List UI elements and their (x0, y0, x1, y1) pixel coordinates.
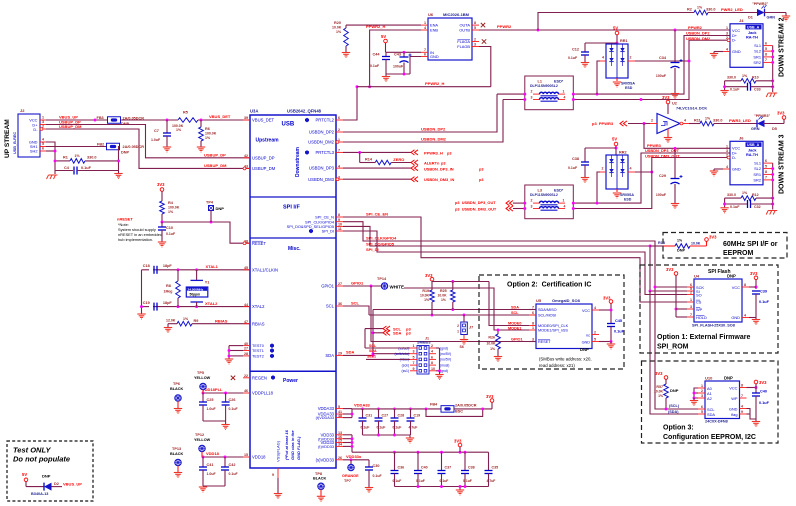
ground (167, 324, 169, 327)
svg-text:1: 1 (413, 344, 415, 348)
svg-text:330.0: 330.0 (706, 8, 716, 12)
svg-text:USBDN_DP2: USBDN_DP2 (421, 127, 446, 132)
IC TEST shield glyphs (270, 343, 274, 348)
dashed box SPI Flash (640, 265, 778, 353)
svg-text:PPWR3_H: PPWR3_H (424, 150, 443, 155)
svg-text:DOWN STREAM 3: DOWN STREAM 3 (779, 134, 786, 194)
svg-text:2: 2 (531, 90, 533, 94)
svg-text:3: 3 (531, 204, 533, 208)
svg-text:2: 2 (338, 128, 340, 132)
svg-text:SDA: SDA (325, 353, 334, 358)
svg-text:VCC: VCC (732, 285, 740, 290)
svg-text:VDD18: VDD18 (206, 451, 220, 456)
svg-text:R9: R9 (194, 319, 199, 323)
ground (225, 359, 233, 364)
ground (197, 147, 205, 152)
svg-text:TP13: TP13 (172, 447, 181, 451)
wire nRESET (161, 214, 163, 222)
svg-text:R2: R2 (687, 8, 692, 12)
svg-text:RR2: RR2 (619, 151, 627, 155)
svg-text:1: 1 (563, 90, 565, 94)
wire PRTCTL3 PPWR3_H (343, 151, 411, 153)
SCL chevron vertical to SMBus (364, 329, 366, 348)
svg-text:1%: 1% (183, 317, 189, 321)
svg-text:2A/0.05DCR: 2A/0.05DCR (455, 404, 477, 408)
capacitor C4 (55, 170, 73, 172)
svg-text:C29: C29 (659, 174, 666, 178)
svg-text:(SCL): (SCL) (669, 404, 680, 408)
svg-text:18pF: 18pF (163, 301, 173, 305)
svg-text:3: 3 (726, 149, 728, 153)
wire PPWR3 to J6 (644, 124, 730, 149)
svg-text:22: 22 (244, 374, 248, 378)
svg-text:1%: 1% (705, 117, 711, 121)
svg-text:D2: D2 (54, 482, 59, 486)
svg-text:(gnd): (gnd) (440, 346, 448, 350)
dashed box Option 3 (642, 361, 779, 443)
svg-text:Downstream: Downstream (295, 146, 301, 177)
svg-text:50ppm: 50ppm (190, 293, 201, 297)
pin bubbles right (336, 141, 339, 144)
capacitor C19b (410, 409, 412, 418)
SMBus right ground vertical (436, 347, 440, 349)
svg-text:USB_A: USB_A (747, 143, 760, 147)
svg-text:"PPWR3": "PPWR3" (754, 114, 770, 118)
svg-text:100.0K: 100.0K (205, 132, 217, 136)
svg-text:SPI_CE_EN: SPI_CE_EN (366, 211, 388, 216)
svg-text:REGEN: REGEN (252, 375, 267, 380)
ground J7 (463, 335, 465, 340)
verticals to Option3 (650, 291, 698, 414)
wire MODE1 (404, 288, 529, 330)
svg-text:0.1uF: 0.1uF (370, 64, 380, 68)
svg-text:FB4: FB4 (430, 403, 438, 407)
svg-text:R19: R19 (422, 289, 429, 293)
wire XTAL2 (153, 306, 250, 308)
U10 pin stubs left (698, 387, 705, 389)
capacitor C45 (607, 324, 615, 327)
svg-text:RA-TH: RA-TH (746, 153, 758, 157)
svg-text:4: 4 (338, 164, 340, 168)
power 3V3 C39 (754, 276, 758, 280)
svg-text:4.7uF: 4.7uF (409, 426, 418, 430)
svg-text:R1: R1 (63, 156, 68, 160)
svg-text:GRN: GRN (767, 16, 776, 20)
power 3V3 U2 (666, 100, 670, 104)
svg-text:3: 3 (531, 95, 533, 99)
wire VCC U10 (747, 387, 757, 389)
SDA vertical (372, 310, 374, 356)
wire USBDN_DP3 / chevron (343, 167, 411, 169)
svg-text:R11: R11 (694, 119, 701, 123)
svg-text:2: 2 (701, 389, 703, 393)
svg-text:7: 7 (690, 313, 692, 317)
capacitor C40 (752, 393, 760, 396)
resistor R19 (430, 290, 435, 302)
ground (158, 242, 166, 247)
ground R10 C33 left (724, 81, 726, 90)
wire VBUS_DET (121, 119, 179, 121)
svg-text:C37: C37 (445, 466, 452, 470)
ground (163, 147, 171, 152)
svg-text:4: 4 (424, 26, 426, 30)
svg-text:7: 7 (413, 361, 415, 365)
svg-text:1: 1 (726, 26, 728, 30)
svg-text:4: 4 (431, 350, 433, 354)
capacitor C38b (464, 452, 466, 470)
svg-text:SEL1: SEL1 (367, 355, 376, 359)
wire SMBus pin5 (366, 358, 410, 360)
svg-text:5V: 5V (381, 34, 386, 39)
ground C29 (671, 204, 679, 209)
capacitor C43 (403, 52, 405, 56)
wire SDA (343, 354, 373, 356)
svg-text:3V3: 3V3 (655, 371, 663, 376)
svg-text:DOWN STREAM 2: DOWN STREAM 2 (779, 17, 786, 77)
svg-text:B340A-13: B340A-13 (31, 492, 48, 496)
wire ground rail crystal (141, 270, 143, 314)
svg-text:GND: GND (582, 340, 591, 344)
svg-text:0.1uF: 0.1uF (463, 479, 472, 483)
wire GND U5 (599, 341, 611, 343)
svg-text:read address: x21): read address: x21) (539, 363, 575, 368)
wire IN rail (386, 51, 422, 53)
svg-text:D-: D- (33, 127, 38, 132)
svg-text:VCC: VCC (582, 309, 590, 313)
svg-text:0.1uF: 0.1uF (759, 300, 770, 304)
wire J7 to SCL (463, 315, 465, 322)
svg-text:SL2: SL2 (754, 49, 761, 54)
svg-text:"PPWR2": "PPWR2" (752, 2, 768, 6)
svg-text:2: 2 (457, 324, 459, 328)
svg-text:SDA: SDA (346, 349, 355, 354)
svg-text:10.0K: 10.0K (438, 294, 448, 298)
U4 GND wire (749, 317, 756, 319)
svg-text:5V: 5V (22, 472, 27, 477)
wire L1 in (497, 93, 525, 95)
svg-text:1%: 1% (336, 30, 342, 34)
svg-text:GND vias in the: GND vias in the (290, 430, 295, 460)
ground TP8 (317, 496, 325, 501)
svg-text:C40: C40 (421, 466, 428, 470)
svg-text:SR05SA: SR05SA (621, 82, 635, 86)
test point TP14 WHITE (381, 283, 387, 289)
svg-text:PPWR2: PPWR2 (688, 25, 703, 30)
svg-text:6: 6 (701, 405, 703, 409)
svg-text:4: 4 (564, 204, 566, 208)
svg-text:45: 45 (244, 266, 248, 270)
svg-text:DLP11SN900SL2: DLP11SN900SL2 (530, 193, 558, 197)
wire GND pin to rail (410, 57, 421, 75)
svg-text:S6: S6 (460, 345, 464, 349)
svg-text:J4: J4 (739, 18, 744, 23)
REGEN no-connect X (231, 376, 235, 380)
svg-text:6: 6 (765, 159, 767, 163)
svg-text:U10: U10 (705, 376, 713, 381)
svg-text:R10: R10 (752, 76, 759, 80)
svg-text:0.1uF: 0.1uF (614, 330, 625, 334)
wire SDA run to U5 (373, 309, 536, 311)
svg-text:1%: 1% (742, 74, 748, 78)
power 3V3 R57 (664, 376, 668, 380)
wire GPIO1 TP14 (343, 285, 381, 287)
svg-text:R13: R13 (658, 241, 665, 245)
svg-text:p3 USBDN_DM3_OUT: p3 USBDN_DM3_OUT (455, 207, 497, 212)
svg-text:RR1: RR1 (620, 39, 628, 43)
J2 D- bubble (40, 128, 43, 131)
svg-text:4: 4 (630, 167, 632, 171)
capacitor C40b (417, 452, 419, 470)
svg-text:8: 8 (765, 53, 767, 57)
svg-text:VBUS_DET: VBUS_DET (252, 118, 275, 123)
svg-text:(no/5V): (no/5V) (440, 358, 451, 362)
svg-text:R8: R8 (166, 284, 171, 288)
svg-text:USB: USB (282, 122, 295, 128)
wire USBUP_DP (46, 125, 250, 158)
svg-text:FB2: FB2 (97, 142, 104, 146)
wire DP3_OUT to J6 (573, 153, 730, 203)
wire VCC U5 (599, 309, 611, 311)
pin stubs J2 (40, 119, 46, 121)
capacitor C18 (154, 266, 157, 274)
diode D2 B340A-13 (44, 483, 52, 491)
svg-text:USBDN_DP2: USBDN_DP2 (686, 31, 710, 36)
svg-text:SR1: SR1 (753, 172, 761, 177)
ground C26 (221, 425, 229, 430)
earth ground J6 (766, 211, 777, 215)
inverter U2 74LVC1G14 (657, 114, 680, 134)
dashed box Test ONLY (7, 441, 93, 501)
svg-text:TP14: TP14 (377, 277, 387, 281)
svg-text:C25: C25 (207, 398, 214, 402)
svg-text:BSC: BSC (455, 410, 463, 414)
ground R20 (342, 53, 350, 58)
svg-text:SL1: SL1 (754, 161, 761, 166)
svg-text:C41: C41 (207, 463, 214, 467)
svg-text:GPIO1: GPIO1 (321, 284, 334, 289)
svg-text:VDD33o: VDD33o (346, 454, 362, 459)
svg-text:4: 4 (744, 314, 746, 318)
svg-text:BLACK: BLACK (170, 452, 184, 456)
svg-text:18pF: 18pF (163, 264, 173, 268)
svg-text:DNP: DNP (724, 376, 733, 381)
wire L1 out DP2 (573, 36, 730, 95)
svg-text:USB_B-REC: USB_B-REC (13, 132, 17, 154)
svg-text:R57: R57 (656, 385, 663, 389)
svg-text:WHITE: WHITE (390, 284, 405, 289)
svg-text:47: 47 (244, 320, 248, 324)
svg-text:3V3: 3V3 (750, 271, 758, 276)
svg-text:100uF: 100uF (656, 193, 667, 197)
wire GND U10 (747, 409, 757, 420)
svg-text:DNP: DNP (121, 151, 129, 155)
wire SMBus pin1 to SCL chevron (365, 347, 410, 349)
svg-text:RESET: RESET (252, 241, 266, 246)
wire RESET GPIO1 (529, 341, 536, 343)
capacitor C19 (154, 303, 157, 311)
svg-text:EEPROM: EEPROM (723, 250, 754, 257)
capacitor C25 (202, 393, 204, 402)
off-page chevron SCL p3 (365, 328, 383, 330)
capacitor C35 (488, 452, 490, 470)
capacitor C26 (225, 393, 227, 402)
svg-text:3: 3 (413, 350, 415, 354)
svg-text:DNP: DNP (580, 347, 589, 352)
power 5V RR2 (614, 142, 618, 146)
svg-text:TP5: TP5 (197, 371, 204, 375)
svg-text:(ss1): (ss1) (401, 369, 409, 373)
svg-text:XTAL2: XTAL2 (205, 301, 218, 306)
jumper J7 (461, 322, 468, 335)
IC U3A USB2642_QFN48 (250, 115, 336, 468)
resistor R6 (200, 120, 202, 127)
svg-text:10.0K: 10.0K (654, 390, 664, 394)
svg-text:15: 15 (244, 453, 248, 457)
svg-text:RBIAS: RBIAS (215, 319, 228, 324)
svg-text:4: 4 (602, 56, 604, 60)
svg-text:0.1uF: 0.1uF (377, 426, 386, 430)
svg-text:1%: 1% (441, 298, 446, 302)
svg-text:USBDN_DP2: USBDN_DP2 (309, 130, 335, 135)
svg-text:2: 2 (602, 167, 604, 171)
common-mode choke L3 DLP11SN900SL2 (525, 185, 574, 219)
capacitor C36 (394, 452, 396, 470)
svg-text:SPI_DO/GPIO5: SPI_DO/GPIO5 (366, 241, 395, 246)
svg-text:J2: J2 (20, 108, 25, 113)
wire SCL (343, 306, 369, 315)
ground U5 (607, 344, 615, 349)
wire VDDPLL18 (203, 392, 243, 394)
svg-text:8: 8 (474, 21, 476, 25)
svg-text:5: 5 (338, 405, 340, 409)
shield network wires (46, 142, 55, 171)
svg-text:8: 8 (532, 322, 534, 326)
svg-text:J7: J7 (469, 326, 473, 330)
capacitor C32 (725, 203, 747, 205)
svg-text:(t)VDD33: (t)VDD33 (318, 445, 334, 449)
svg-text:ESD: ESD (625, 86, 633, 90)
IC U10 24C0X EEPROM (705, 381, 740, 419)
svg-text:C10: C10 (166, 226, 173, 230)
svg-text:0.1uF: 0.1uF (440, 479, 449, 483)
svg-text:(SDA): (SDA) (668, 410, 679, 414)
svg-text:1: 1 (532, 326, 534, 330)
svg-text:A2: A2 (707, 396, 712, 401)
svg-text:C40: C40 (760, 390, 767, 394)
svg-text:1: 1 (701, 384, 703, 388)
capacitor C33 (725, 86, 747, 88)
ground C30 (365, 488, 373, 493)
svg-text:7: 7 (765, 58, 767, 62)
U4 pin stubs left (687, 286, 694, 288)
svg-text:1%: 1% (742, 191, 748, 195)
svg-text:1%: 1% (168, 210, 174, 214)
svg-text:USBDN_DM2: USBDN_DM2 (308, 140, 334, 145)
svg-text:D-: D- (732, 155, 737, 160)
svg-text:GPIO1: GPIO1 (511, 338, 523, 342)
crystal Y1 (196, 270, 198, 280)
svg-text:USBUP_DP: USBUP_DP (252, 155, 275, 160)
svg-text:0.1uF: 0.1uF (166, 232, 176, 236)
off-page chevron PPWR3_H (411, 150, 418, 155)
svg-text:XTAL1: XTAL1 (206, 264, 219, 269)
svg-text:RBIAS: RBIAS (252, 321, 265, 326)
capacitor C10 (161, 222, 163, 227)
ferrite bead FB2 (107, 143, 120, 150)
svg-text:0.1uF: 0.1uF (393, 479, 402, 483)
svg-text:1: 1 (726, 144, 728, 148)
svg-text:9: 9 (338, 218, 340, 222)
svg-text:5: 5 (474, 26, 476, 30)
svg-text:2: 2 (651, 119, 653, 123)
svg-text:8: 8 (744, 283, 746, 287)
svg-text:7: 7 (765, 176, 767, 180)
svg-text:U2: U2 (672, 102, 677, 106)
svg-text:GRN: GRN (751, 127, 760, 131)
ground TP6 (174, 409, 182, 414)
svg-text:PRTCTL2: PRTCTL2 (315, 118, 334, 123)
svg-text:C43: C43 (394, 53, 401, 57)
svg-text:0.1uF: 0.1uF (229, 407, 239, 411)
off-page chevron ALERTn (411, 160, 418, 165)
svg-text:(*Put at least 16: (*Put at least 16 (284, 429, 289, 460)
svg-text:4: 4 (564, 95, 566, 99)
svg-text:SPI_DI: SPI_DI (322, 229, 334, 234)
svg-text:TP8: TP8 (315, 472, 322, 476)
svg-text:PRTCTL3: PRTCTL3 (315, 150, 334, 155)
svg-text:TP12: TP12 (195, 433, 204, 437)
svg-text:PPWR2_H: PPWR2_H (425, 81, 444, 86)
svg-text:28: 28 (244, 352, 248, 356)
svg-text:0.1uF: 0.1uF (393, 426, 402, 430)
svg-text:C38: C38 (572, 157, 579, 161)
svg-text:SPI_FLASH-25X30_SO8: SPI_FLASH-25X30_SO8 (692, 324, 735, 328)
IC U6 MIC2026-1BM (428, 18, 472, 60)
svg-text:GPIO1: GPIO1 (351, 281, 364, 286)
svg-text:C34: C34 (659, 56, 667, 60)
wire SPI_CE_EN (343, 217, 687, 302)
svg-text:6: 6 (431, 355, 433, 359)
ground C12 (581, 63, 589, 68)
svg-text:48: 48 (338, 414, 342, 418)
dashed box Option 2 (479, 275, 624, 369)
svg-text:3: 3 (726, 32, 728, 36)
RR1 pin stubs (600, 60, 606, 62)
svg-text:5V: 5V (612, 137, 617, 142)
svg-text:5: 5 (701, 410, 703, 414)
IC U4 SPI_FLASH (694, 279, 742, 322)
resistor R14 ZERO (359, 152, 361, 162)
svg-text:6: 6 (338, 116, 340, 120)
svg-text:SO: SO (696, 293, 702, 298)
svg-text:C19: C19 (143, 301, 150, 305)
svg-text:C39: C39 (760, 290, 767, 294)
svg-text:C12: C12 (572, 48, 579, 52)
svg-text:TEST0: TEST0 (252, 344, 264, 348)
svg-text:USBDN_DM3_IN: USBDN_DM3_IN (424, 177, 454, 182)
svg-text:TP4: TP4 (206, 201, 214, 205)
svg-text:44: 44 (244, 303, 248, 307)
svg-text:OUTB: OUTB (459, 28, 470, 33)
svg-text:10: 10 (431, 367, 435, 371)
svg-text:p3 PPWR3: p3 PPWR3 (592, 121, 614, 126)
capacitor C30 (368, 460, 370, 467)
svg-text:ESD: ESD (624, 198, 632, 202)
svg-text:SL1: SL1 (754, 43, 761, 48)
svg-text:330.0: 330.0 (87, 156, 97, 160)
U10 pin stubs right (740, 387, 747, 389)
wire VDDA33 rail (343, 408, 352, 410)
